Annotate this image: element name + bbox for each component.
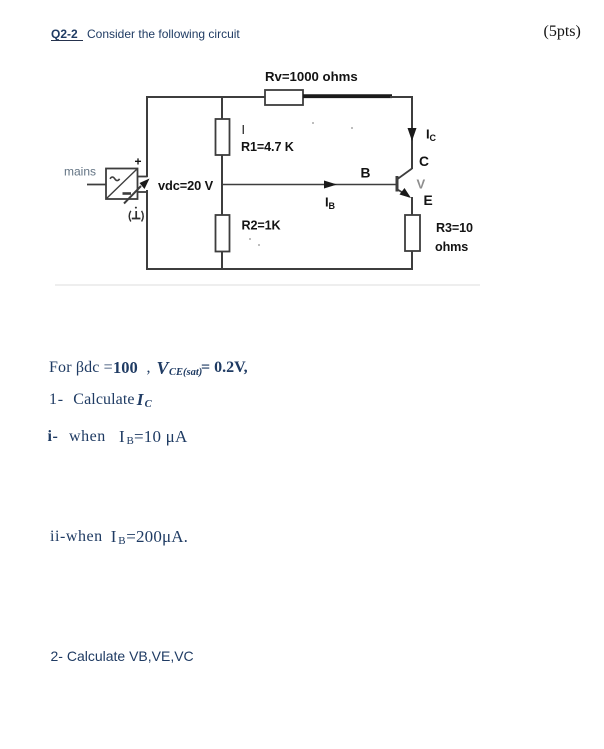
current arrow IB [324, 181, 337, 189]
transistor Q1 base bar [396, 176, 399, 192]
wire bottom rail [146, 268, 412, 270]
svg-text:V: V [417, 177, 426, 192]
stray speck dots [249, 122, 353, 246]
wire top rail right segment [390, 96, 412, 98]
svg-text:+: + [135, 155, 142, 169]
problem text line 4 [50, 529, 103, 545]
svg-text:B: B [361, 166, 371, 181]
current arrow Ic [408, 128, 417, 141]
wire mains lead [87, 184, 106, 186]
svg-text:IB: IB [325, 195, 336, 212]
wire middle branch top [221, 96, 223, 119]
points label (5pts) [544, 24, 581, 40]
wire source bottom stub [138, 191, 148, 193]
wire source top stub [138, 176, 148, 178]
header underline [51, 40, 84, 41]
svg-text:Rv=1000 ohms: Rv=1000 ohms [265, 69, 358, 84]
wire left rail upper [146, 96, 148, 177]
adjustment arrow on source [124, 179, 150, 204]
wire emitter vertical [411, 197, 413, 215]
problem text line 3 [48, 429, 59, 445]
wire collector vertical [411, 96, 413, 169]
wire left rail lower [146, 190, 148, 270]
header title text [87, 28, 240, 40]
svg-text:R1=4.7 K: R1=4.7 K [241, 140, 294, 154]
svg-text:vdc=20 V: vdc=20 V [158, 178, 214, 193]
resistor R2 [216, 215, 230, 252]
problem text line 1 [49, 360, 113, 376]
transistor Q1 collector lead [398, 169, 413, 180]
svg-text:IC: IC [426, 127, 437, 144]
svg-text:E: E [424, 193, 433, 208]
resistor R1 [216, 119, 230, 155]
wire top rail bold segment [303, 94, 392, 98]
AC-DC converter source box [106, 169, 138, 200]
svg-text:R2=1K: R2=1K [242, 219, 281, 233]
transistor Q1 emitter lead [398, 188, 412, 198]
image border faint line [55, 284, 480, 286]
svg-text:R3=10: R3=10 [436, 221, 473, 235]
wire top rail left segment [146, 96, 265, 98]
problem text line 5 [51, 649, 194, 663]
resistor Rv [265, 90, 303, 105]
wire middle branch mid [221, 155, 223, 215]
wire middle branch bottom [221, 252, 223, 271]
svg-text:C: C [419, 154, 429, 169]
ground symbol [129, 207, 143, 222]
header question number Q2-2 [51, 28, 78, 40]
resistor R3 [405, 215, 420, 251]
svg-text:ohms: ohms [435, 240, 468, 254]
svg-text:mains: mains [64, 165, 96, 179]
svg-text:I: I [242, 123, 245, 137]
problem text line 2 [49, 392, 64, 408]
wire base [222, 184, 396, 186]
wire R3 to bottom rail [411, 251, 413, 270]
